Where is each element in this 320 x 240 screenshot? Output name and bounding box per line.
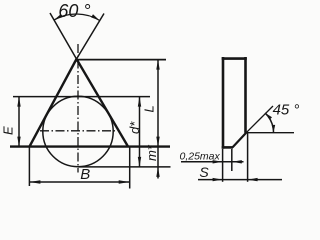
chamfer extension line [247, 106, 274, 132]
arrow 0,25 right [232, 160, 242, 163]
chamfer edge [233, 132, 247, 147]
S extension line left [222, 149, 224, 182]
horizontal reference line 45 [246, 132, 294, 134]
top tangent extension line [13, 96, 150, 98]
arrow S right [248, 178, 258, 181]
dimension line B [29, 181, 129, 183]
inscribed circle [43, 96, 113, 166]
plate right edge [244, 57, 247, 133]
arc arrow 45 top [265, 113, 272, 120]
plate bottom edge [222, 146, 233, 149]
bottom tangent extension line [78, 166, 171, 168]
arrow S left [213, 178, 223, 181]
arrow E bottom [17, 137, 20, 147]
svg-text:S: S [199, 164, 209, 180]
arrow B right [119, 180, 130, 183]
svg-text:B: B [80, 166, 90, 183]
arrow 0,25 left [213, 160, 223, 163]
angle extension line right [77, 14, 105, 60]
arrow m bottom outside [156, 167, 159, 177]
arrow d top [138, 97, 141, 107]
dimension line S [198, 179, 282, 181]
svg-text:d*: d* [127, 121, 142, 134]
arrow d bottom [138, 157, 141, 167]
60 degree dimension arc [54, 14, 100, 20]
dimension line 0,25max [181, 161, 244, 163]
triangle left side [30, 59, 77, 147]
triangle right side [77, 59, 129, 147]
dimension line d [139, 97, 141, 167]
dimension line E [18, 97, 20, 147]
svg-text:E: E [1, 126, 16, 135]
arrow L top [156, 60, 159, 70]
B extension line right [129, 147, 131, 189]
svg-text:L: L [142, 105, 157, 112]
plate top edge [222, 57, 247, 60]
arrow B left [29, 180, 40, 183]
angle extension line left [50, 13, 77, 59]
base line [10, 145, 170, 147]
vertical centerline [77, 44, 79, 173]
chamfer start extension line [231, 149, 233, 171]
arc arrow 45 bottom [272, 125, 275, 133]
arrow L bottom [156, 137, 159, 147]
svg-text:60 °: 60 ° [58, 1, 90, 21]
45 degree dimension arc [265, 113, 273, 133]
svg-text:45 °: 45 ° [273, 102, 300, 119]
plate left edge [222, 57, 225, 149]
arc arrow left [54, 14, 63, 20]
svg-text:m*: m* [144, 144, 159, 161]
arrow E top [17, 97, 20, 107]
svg-text:0,25max: 0,25max [180, 150, 221, 162]
S extension line right [247, 133, 249, 182]
horizontal centerline [40, 130, 116, 132]
B extension line left [28, 147, 30, 186]
apex level extension line [77, 59, 167, 61]
arc arrow right [91, 14, 100, 20]
dimension line L and m [157, 60, 159, 179]
